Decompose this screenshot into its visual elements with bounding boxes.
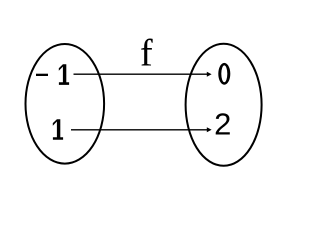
svg-text:f: f [140,33,153,75]
element 0 [218,63,230,85]
arrow 1 to 2 : shaft [71,129,207,131]
arrow -1 to 0 : head [207,72,212,77]
left set ellipse (domain) [26,44,105,164]
element -1 : minus sign [36,74,48,76]
element 1 [53,119,63,140]
svg-text:2: 2 [214,106,231,141]
arrow 1 to 2 : head [207,127,212,132]
element -1 : digit 1 [59,64,69,85]
right set ellipse (codomain) [186,44,262,166]
arrow -1 to 0 : shaft [74,73,208,75]
